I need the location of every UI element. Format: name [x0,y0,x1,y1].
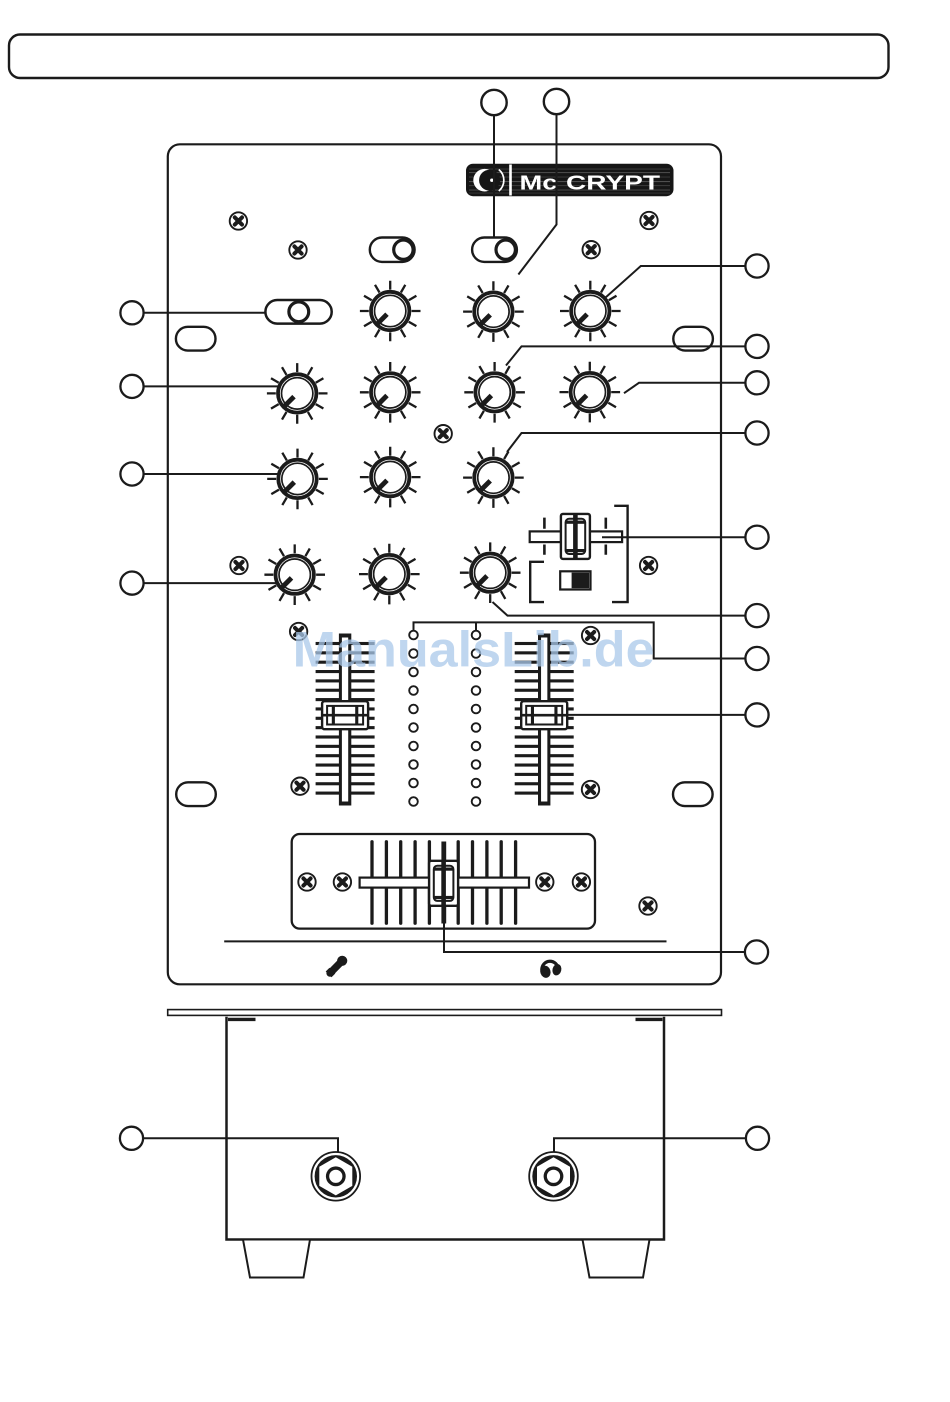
oval cutout top-left [176,327,216,351]
svg-text:Mc: Mc [520,172,558,195]
channel fader left [316,634,375,806]
rotary knob R2C1 [267,363,328,424]
body tab left [228,1018,256,1021]
bracket right [612,506,628,602]
Mc CRYPT logo [466,164,674,197]
callout circle L3 [120,462,143,485]
callout circle L1 [120,301,143,324]
screw S4 [640,212,657,229]
rotary knob R2C3 [464,362,525,423]
callout circle C7 [745,647,768,670]
svg-text:ManualsLib.de: ManualsLib.de [293,622,655,678]
leader L5 to left jack [143,1138,338,1152]
oval cutout bottom-left [176,782,216,806]
mini fader knob [561,514,590,559]
screw S11 [582,781,599,798]
microphone icon [329,956,348,975]
toggle switch B [472,238,517,262]
LED meter column left [409,631,418,806]
screw S14 [536,873,553,890]
rotary knob R3C3 [463,447,524,508]
panel divider line [224,940,666,942]
bottom view top bar [168,1010,722,1016]
rotary knob R4C1 [264,544,325,605]
callout circle C1 [745,254,768,277]
callout circle T2 [544,89,569,114]
rotary knob R1C3 [463,281,524,342]
callout circle T1 [481,90,506,115]
mixer front panel outline [168,144,721,984]
screw S8 [290,623,307,640]
leader C5 to mini fader [602,536,745,538]
rotary knob R3C1 [267,449,328,510]
leader C2 to knob R2C3 [506,346,745,365]
crossfader track [360,878,529,888]
crossfader center tick [441,842,446,924]
screw S9 [582,627,599,644]
foot right [583,1240,650,1278]
bracket left [530,562,544,602]
body tab right [636,1018,663,1021]
mini fader side dashes [544,518,605,555]
screw S2 [289,241,306,258]
callout circle C8 [745,703,768,726]
rotary knob R1C2 [360,281,421,342]
screw S7 [640,557,657,574]
mini fader track [530,531,622,542]
jack socket right [529,1152,578,1201]
crossfader comb ticks [372,842,516,923]
leader C1 to knob R1C4 [591,266,745,311]
screw S15 [573,873,590,890]
leader L2 to knob R2C1 [144,385,298,387]
leader L1 to toggle C [144,312,266,314]
callout circle C9 [745,940,768,963]
leader L3 to knob R3C1 [144,473,298,475]
crossfader plate [292,834,595,929]
rotary knob R2C2 [360,362,421,423]
screw S6 [230,557,247,574]
leader L4 to knob R4C1 [144,582,299,584]
callout circle C10 [746,1127,769,1150]
callout circle C3 [745,371,768,394]
bottom body outline [227,1017,665,1240]
crossfader knob [429,861,458,906]
rotary knob R1C4 [560,281,621,342]
oval cutout bottom-right [673,782,713,806]
callout circle L5 [120,1127,143,1150]
callout circle C6 [745,604,768,627]
leader C10 to right jack [554,1138,746,1152]
leader T1 to toggle B [493,115,495,239]
callout circle C5 [745,526,768,549]
screw S1 [230,212,247,229]
screw S3 [583,241,600,258]
screw S16 [639,897,656,914]
svg-text:CRYPT: CRYPT [566,172,661,195]
screw S5 [435,425,452,442]
callout circle C4 [745,421,768,444]
leader C4 to knob R3C3 [507,433,745,452]
screw S10 [291,778,308,795]
toggle switch A [370,238,415,262]
slide switch [560,571,590,589]
leader C9 to crossfader [444,906,745,952]
headphones icon [539,961,563,979]
leader C8 to right fader knob [568,714,746,716]
wide toggle switch C [265,300,331,324]
leader C3 to knob R2C4 [624,383,745,393]
leader C7 to LED meters [414,622,746,658]
oval cutout top-right [673,327,713,351]
foot left [243,1240,310,1278]
empty title box [9,35,889,79]
screw S12 [298,873,315,890]
LED meter column right [472,631,481,806]
leader T2 to knob R1C3 [518,114,556,275]
callout circle C2 [745,335,768,358]
screw S13 [334,873,351,890]
callout circle L2 [120,375,143,398]
callout circle L4 [120,572,143,595]
jack socket left [312,1152,361,1201]
channel fader right [515,634,574,806]
rotary knob R4C3 [460,542,521,603]
rotary knob R3C2 [360,447,421,508]
rotary knob R2C4 [560,362,621,423]
rotary knob R4C2 [359,544,420,605]
leader C6 to knob R4C3 [493,602,746,616]
